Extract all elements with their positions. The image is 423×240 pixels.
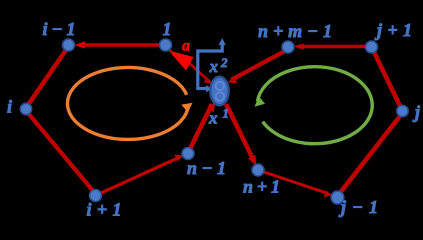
svg-text:j−1: j−1 bbox=[338, 197, 378, 217]
node i bbox=[20, 103, 31, 114]
svg-text:i: i bbox=[7, 97, 12, 117]
svg-text:x: x bbox=[209, 57, 219, 76]
node j bbox=[397, 105, 408, 116]
node j-1 bbox=[331, 191, 344, 204]
svg-text:n−1: n−1 bbox=[187, 158, 226, 178]
edge x to n+1 bbox=[226, 104, 253, 159]
svg-text:a: a bbox=[182, 38, 190, 55]
green cycle arrow (right loop) bbox=[258, 67, 373, 144]
node j+1 bbox=[366, 41, 378, 53]
big red arrowhead a at node 1 bbox=[169, 51, 194, 71]
svg-text:1: 1 bbox=[163, 19, 172, 39]
svg-text:1: 1 bbox=[223, 106, 230, 121]
orange arrowhead bbox=[181, 103, 192, 113]
svg-text:x: x bbox=[208, 109, 218, 128]
node i-1 bbox=[63, 39, 75, 51]
edge n+m-1 to x bbox=[231, 51, 285, 80]
blue self-loop at x bbox=[198, 43, 222, 89]
orange cycle arrow (left loop) bbox=[67, 67, 188, 139]
edge i to i+1 bbox=[28, 113, 94, 192]
edge j+1 to n+m-1 bbox=[298, 45, 365, 49]
node n-1 bbox=[182, 148, 194, 160]
edge x to 1 (thin segment) bbox=[188, 62, 210, 82]
node i+1 bbox=[90, 190, 102, 202]
node n+m-1 bbox=[282, 41, 294, 53]
edge j-1 to j bbox=[340, 116, 400, 193]
green arrowhead bbox=[255, 96, 266, 107]
edge i-1 to i bbox=[28, 50, 66, 105]
node n+1 bbox=[252, 164, 264, 176]
loop arm arrowhead right bbox=[206, 85, 212, 92]
inner ring top bbox=[216, 82, 224, 90]
center vertex x (ellipse) bbox=[210, 77, 228, 106]
edge j to j+1 bbox=[374, 52, 400, 106]
node 1 bbox=[160, 39, 172, 51]
svg-text:i−1: i−1 bbox=[43, 19, 76, 39]
edge i+1 to n-1 bbox=[101, 157, 180, 193]
arrowhead at x top-left bbox=[204, 77, 214, 85]
edge n+1 to j-1 bbox=[264, 172, 328, 194]
edge 1 to i-1 bbox=[79, 43, 159, 47]
svg-text:n+1: n+1 bbox=[243, 177, 280, 197]
inner ring bottom bbox=[216, 92, 224, 100]
svg-text:2: 2 bbox=[220, 55, 228, 70]
svg-text:j+1: j+1 bbox=[374, 20, 412, 40]
loop arrowhead up bbox=[219, 38, 226, 45]
edge n-1 to x bbox=[190, 104, 212, 149]
